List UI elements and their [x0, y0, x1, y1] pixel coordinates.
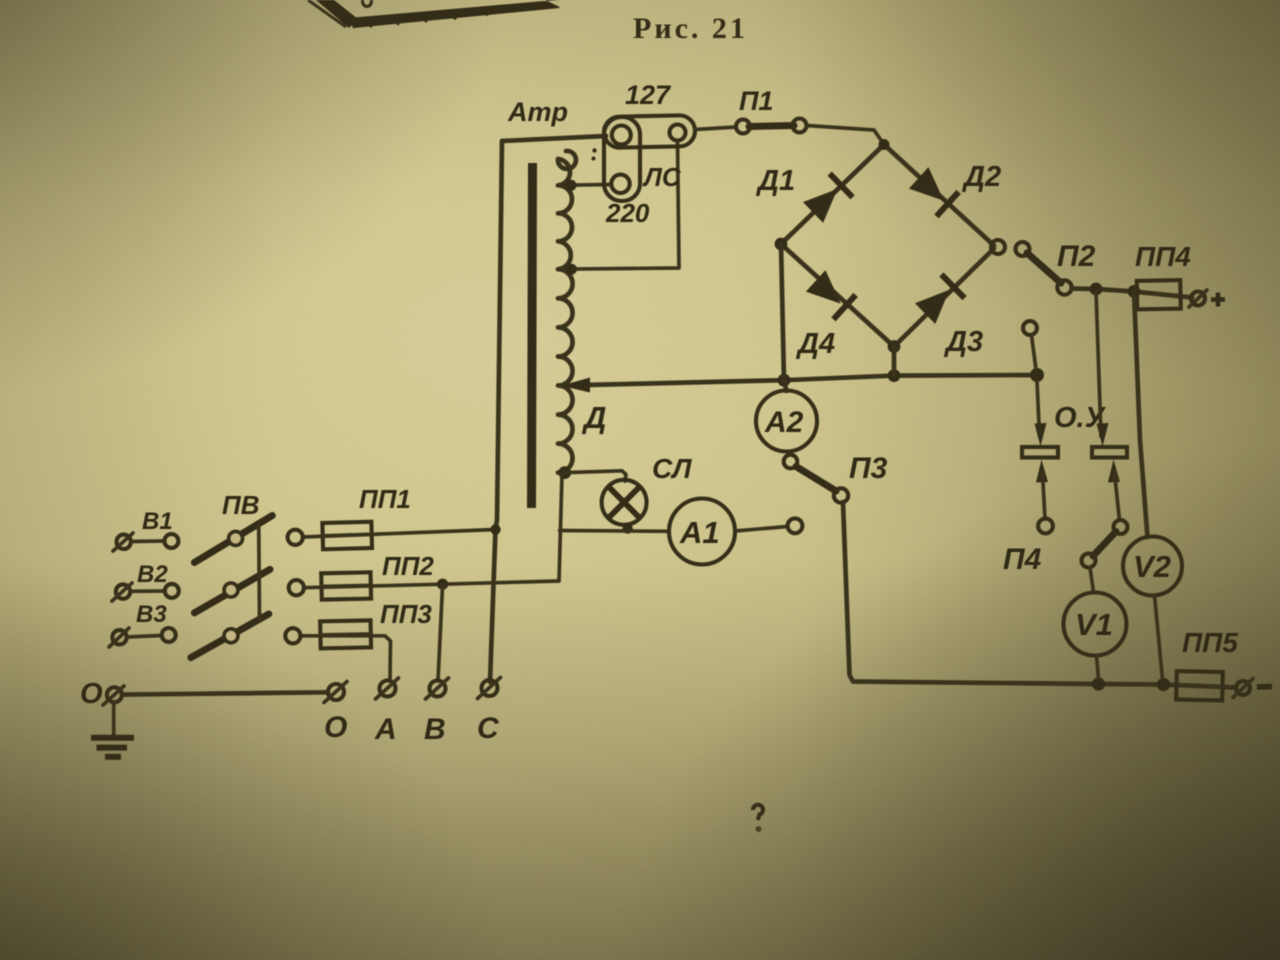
svg-text:V1: V1: [1075, 607, 1113, 642]
svg-text:127: 127: [625, 80, 672, 110]
terminal А output: [376, 678, 399, 699]
bridge edge left-bottom: [781, 244, 894, 347]
transformer core bar: [532, 163, 533, 508]
diode Д1: [802, 174, 853, 225]
terminal О far left: [103, 686, 124, 705]
node bridge top: [879, 139, 890, 150]
connector О.У right: socket bar: [1092, 447, 1127, 458]
wire А1 to open contact: [735, 527, 788, 532]
node bus/V2: [1157, 678, 1170, 691]
connector О.У right: plug arrow down: [1097, 423, 1109, 447]
wire lamp to А1 line: [626, 525, 628, 529]
contact ПП3 left: [285, 628, 300, 643]
svg-text:Д: Д: [581, 400, 606, 435]
switch П3 blade: [796, 467, 836, 492]
contact ПП2 left: [289, 580, 304, 595]
switch П2 blade: [1027, 253, 1061, 283]
wire winding bottom to lamp: [565, 471, 626, 481]
terminal П4: [1038, 519, 1053, 534]
fuse ПП2 wire to winding bottom: [304, 581, 559, 588]
svg-text:О: О: [324, 711, 347, 744]
connector О.У left: plug arrow up from П4: [1036, 460, 1048, 483]
svg-text:220: 220: [605, 198, 650, 228]
wire В branch down: [438, 584, 443, 681]
wire 220 tap to selector right circle: [558, 142, 679, 269]
node lamp / А1 wire: [622, 523, 632, 533]
terminal minus: [1233, 679, 1272, 698]
connector О.У left: socket bar: [1022, 447, 1058, 458]
ground: [91, 702, 134, 757]
svg-text:С: С: [477, 712, 500, 745]
svg-text:В: В: [424, 713, 446, 746]
negative bus from winding wiper: [585, 375, 1037, 385]
svg-text:А2: А2: [764, 406, 804, 439]
selector pin top-left: [612, 126, 631, 145]
wire selector to П1: [695, 127, 736, 130]
svg-text:В2: В2: [137, 561, 168, 588]
fuse ПП3 wire to terminal А: [300, 636, 391, 680]
switch П3 contact at А2: [784, 455, 798, 469]
wire phase C: top corner down to terminal С: [490, 141, 502, 682]
diode Д4: [805, 269, 856, 320]
fuse ПП2: [321, 572, 371, 599]
voltage selector link ЛС vertical capsule: [604, 117, 640, 201]
terminal plus: [1189, 290, 1225, 307]
node tap 220: [566, 264, 577, 275]
svg-text:ПП1: ПП1: [359, 484, 411, 514]
open contact right of А1: [788, 518, 803, 533]
terminal О output: [324, 682, 347, 703]
bridge edge top-right: [884, 145, 994, 246]
fuse ПП1: [322, 522, 372, 550]
svg-text:Рис. 21: Рис. 21: [633, 12, 748, 45]
switch П1 contact right: [793, 119, 807, 133]
svg-text:СЛ: СЛ: [652, 453, 692, 484]
fuse ПП3: [320, 620, 371, 648]
ammeter А1: [669, 499, 735, 565]
switch ПВ pivot 1: [229, 531, 243, 545]
contact В3 right: [162, 628, 176, 642]
terminal В3 input: [109, 628, 129, 647]
svg-text:О: О: [80, 678, 103, 710]
voltmeter V1: [1064, 593, 1127, 656]
neutral bus О: [122, 692, 328, 694]
svg-text:В3: В3: [136, 601, 167, 628]
connector О.У right: plug arrow up: [1108, 460, 1120, 483]
signal lamp СЛ: [602, 480, 647, 525]
voltmeter V2: [1123, 537, 1182, 596]
node junction to OU right plug: [1090, 283, 1103, 296]
selector pin bottom (127): [611, 175, 629, 193]
svg-text:А1: А1: [679, 515, 720, 550]
wire V1 to bus: [1097, 656, 1099, 680]
ammeter А2: [756, 391, 817, 452]
svg-text:Д3: Д3: [943, 326, 983, 358]
svg-text:ПП2: ПП2: [382, 551, 434, 581]
wire П3 down to bottom bus: [843, 502, 1236, 688]
node ПП2/В branch: [437, 579, 448, 590]
connector О.У left: plug arrow down: [1037, 381, 1040, 436]
wire V2 to bus: [1155, 596, 1163, 680]
wire В2: [130, 589, 164, 593]
wiper arrow into winding: [561, 378, 590, 393]
switch ПВ blade 2: [194, 569, 270, 613]
wire: top horizontal to selector: [502, 136, 606, 141]
diode Д2: [908, 166, 959, 217]
node tap 127: [566, 180, 577, 191]
switch П1 contact left: [736, 120, 750, 134]
svg-text:ПП4: ПП4: [1135, 241, 1191, 272]
voltage selector link ЛС horizontal capsule: [604, 115, 696, 148]
switch П2 hinge contact: [1057, 280, 1071, 294]
svg-text:Атр: Атр: [507, 97, 568, 127]
svg-text:Д2: Д2: [961, 161, 1001, 193]
diode Д3: [914, 275, 965, 326]
svg-text:V2: V2: [1133, 549, 1171, 584]
svg-text:П4: П4: [1003, 543, 1042, 576]
wire to V1: [1090, 568, 1094, 593]
node ПП1/C line: [490, 524, 500, 534]
switch ПВ pivot 3: [224, 629, 238, 643]
bridge edge bottom-right: [894, 249, 994, 347]
terminal В output: [426, 678, 449, 699]
switch ПВ blade 1: [194, 516, 272, 563]
wire П2 to ПП4 and plus terminal: [1072, 289, 1193, 298]
tap 127 wire: [558, 183, 610, 188]
wire stem terminal to bus: [1032, 335, 1037, 370]
terminal С output: [478, 678, 501, 699]
switch ПВ pivot 2: [224, 583, 238, 597]
svg-text:Д4: Д4: [795, 328, 835, 360]
svg-text:П1: П1: [739, 86, 773, 116]
wire П1 to bridge top: [807, 126, 885, 145]
svg-text:ЛС: ЛС: [642, 162, 682, 192]
terminal В2 input: [112, 583, 132, 601]
svg-text:П3: П3: [849, 452, 888, 485]
switch П3 hinge contact: [834, 488, 848, 502]
selector pin right (220): [670, 125, 686, 141]
contact В1 right: [164, 534, 178, 548]
switch hinge contact above V1: [1082, 554, 1096, 568]
contact ПП1 left: [288, 530, 303, 545]
wire bridge-left node down to bus and А2: [781, 244, 787, 391]
node bus / bridge-left stem: [778, 374, 791, 387]
switch ПВ blade 3: [191, 614, 269, 658]
wire А1 branch: [560, 529, 668, 533]
fuse ПП5: [1176, 671, 1223, 700]
switch П1 blade: [749, 126, 794, 127]
node junction to V2: [1128, 285, 1141, 298]
autotransformer winding Атр: [558, 151, 576, 473]
wire В1: [131, 539, 164, 543]
switch contact at О.У right plug: [1114, 520, 1128, 534]
contact В2 right: [165, 584, 179, 598]
svg-text:ПВ: ПВ: [222, 490, 259, 520]
wire bridge-bottom node to bus: [892, 347, 897, 376]
bridge edge top-left: [781, 145, 884, 245]
svg-text:П2: П2: [1057, 240, 1096, 273]
node bridge bottom: [888, 340, 901, 353]
node bus / bridge-bottom stem: [888, 369, 901, 382]
svg-text:Д1: Д1: [755, 165, 795, 197]
node bridge left: [775, 238, 788, 251]
wire В3: [127, 636, 161, 638]
svg-text:ПП5: ПП5: [1182, 627, 1238, 658]
fuse ПП4: [1137, 280, 1181, 309]
node bus right end: [1030, 368, 1044, 382]
wire winding bottom down to ПП2 line: [559, 474, 562, 581]
terminal В1 input: [113, 533, 133, 551]
svg-text:А: А: [374, 713, 397, 746]
switch П2 contact at bridge right node: [991, 240, 1005, 254]
wire junction down to О.У right plug: [1096, 291, 1101, 436]
svg-text:В1: В1: [142, 508, 173, 535]
node winding bottom: [558, 466, 571, 479]
svg-text:ПП3: ПП3: [380, 599, 432, 629]
switch ПВ gang link: [257, 523, 261, 619]
leftover figure fragment top-left: [308, 0, 597, 161]
switch blade to V1: [1093, 532, 1116, 557]
page mark question squiggle: [753, 805, 763, 832]
node bus/V1: [1092, 677, 1105, 690]
wire junction down to V2: [1134, 292, 1148, 538]
fuse ПП1 wire to phase C line: [303, 530, 496, 538]
switch П2 contact 2: [1016, 242, 1030, 256]
terminal circle above bus near П4 column: [1023, 321, 1037, 335]
